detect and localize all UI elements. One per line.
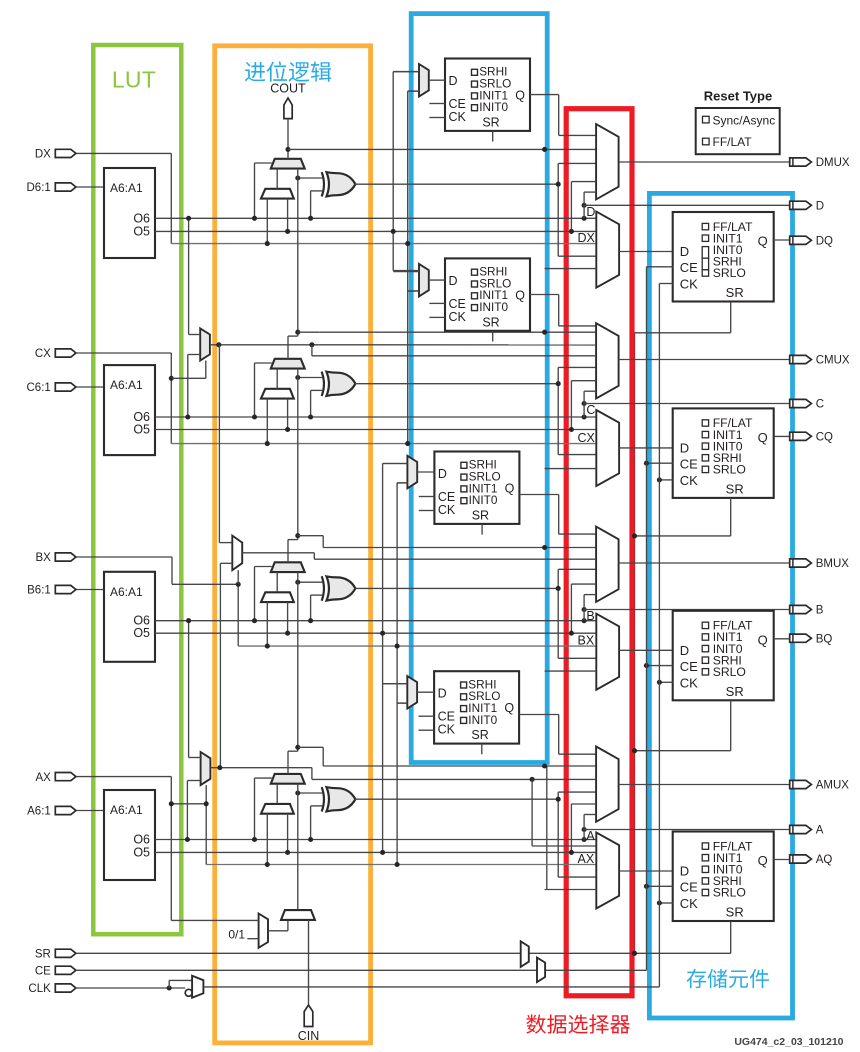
wire F7AMUX output [210,344,596,346]
input pin C6:1 [55,383,76,391]
FF C input mux [419,264,429,297]
wire carry data mux A output [276,784,278,804]
wire F8MUX input from F7BMUX [220,562,232,564]
wire carry branch A to output mux [298,746,323,748]
wire 0/1 mux output to CYINIT [268,930,288,932]
CLK polarity mux [192,976,203,998]
wire carry output C jog [287,336,289,359]
FF B SR stub [481,524,483,535]
wire FF/LAT B CK from rail [659,681,672,683]
flip-flop D5FF block [445,59,530,131]
svg-text:BQ: BQ [816,633,833,645]
carry branch A hidden vertical [546,766,548,890]
hidden CY drop to lower mux B [545,670,597,672]
storage element FF/LAT B [673,611,774,701]
hidden CY drop to lower mux C [545,468,597,470]
svg-text:SRLO: SRLO [713,886,746,900]
output mux DMUX (upper) [596,124,619,199]
output mux BFF input (lower) [596,614,619,690]
wire F7BMUX input from O6 A [187,780,200,782]
wire DX pin to drop [76,152,171,154]
COUT arrow [284,98,292,119]
node C (output line) [582,401,587,406]
wire mux output to FF D D input [619,251,673,253]
svg-text:D: D [449,274,458,288]
svg-text:COUT: COUT [270,82,306,96]
svg-text:SR: SR [726,905,744,920]
wire FF/LAT A SR to rail [730,921,732,953]
svg-text:CK: CK [449,110,467,124]
wire carry branch B to output mux [298,535,323,537]
svg-text:SR: SR [482,116,499,130]
wire XOR C input from O6 [311,389,323,391]
input pin CE [55,966,76,974]
FF B input mux feed wires [383,463,408,465]
svg-text:Q: Q [758,234,768,249]
svg-text:INIT0: INIT0 [479,300,508,314]
FF B CE CK stubs [419,496,435,498]
hidden carry branch to AFF mux (under blue border) [542,763,547,768]
label storage element (Chinese) [687,969,769,988]
svg-text:CE: CE [35,966,51,978]
wire F7AMUX input from O6 D [188,218,190,334]
wire XOR D output [355,183,558,185]
svg-text:CX: CX [35,348,51,360]
input pin B6:1 [55,585,76,593]
XOR gate D [322,172,324,196]
svg-text:AQ: AQ [816,854,833,866]
svg-text:CE: CE [680,260,698,275]
wire carry data mux D input from DX [266,199,268,244]
carry data mux C [261,389,294,399]
wire XOR C input from carry chain [298,377,323,379]
wire MUXCY C select from O6 [255,362,272,364]
SR rail (under red border) [634,333,636,954]
wire carry-in D (from below) [297,169,299,333]
svg-text:SRLO: SRLO [713,665,746,679]
wire DX bus [171,243,596,245]
input pin CX [55,349,76,357]
svg-text:A: A [586,829,595,843]
hidden carry branch to DFF mux (under blue border) [542,147,547,152]
wire F7BMUX output [210,767,312,769]
carry data mux B [261,592,294,602]
storage element FF/LAT A [673,832,774,922]
CE rail [646,267,648,971]
svg-text:Q: Q [758,430,768,445]
svg-text:Q: Q [505,482,515,496]
label carry logic (Chinese) [245,61,331,81]
FF C CE CK stubs [429,302,445,304]
svg-text:B: B [816,605,824,617]
wire O6 bus slice A [155,839,596,841]
wire O6 bus slice C [155,416,596,418]
svg-text:A6:A1: A6:A1 [110,378,143,392]
svg-text:O6: O6 [133,833,150,847]
svg-text:DQ: DQ [816,236,833,248]
input pin A6:1 [55,806,76,814]
flip-flop B5FF block [434,452,519,524]
svg-text:O5: O5 [133,224,150,238]
wire FF D Q to output mux [530,94,559,96]
wire F8MUX select from BX [236,582,241,587]
svg-text:C: C [586,403,595,417]
FF A input mux [407,676,417,709]
FF A SR stub [481,744,483,755]
svg-text:AX: AX [578,852,595,866]
Reset Type legend box [696,108,780,154]
wire XOR A input from O6 [311,805,323,807]
wire XOR D input from carry chain [298,177,323,179]
wire CE bus [76,969,647,971]
XOR D output branch vertical [557,163,559,256]
wire COUT to MUXCY D [287,119,289,159]
svg-text:DMUX: DMUX [816,157,850,169]
input pin SR [55,949,76,957]
label data selector (Chinese) [526,1014,630,1033]
carry branch C hidden vertical [546,349,548,468]
svg-text:DX: DX [35,149,51,161]
LUT B (A6:A1) [104,572,155,662]
FF D input mux [419,64,429,97]
wire MUXCY B select from O6 [255,566,272,568]
wire FF/LAT B Q to BQ pin [774,638,790,640]
wire MUXCY A select from O6 [255,777,272,779]
svg-text:SR: SR [482,315,499,329]
wire O5 bus slice B [155,632,596,634]
wire carry-in C (from below) [297,369,299,536]
wire CMUX output to pin [619,359,790,361]
LUT group box (green) [93,45,181,934]
wire BX pin to drop [76,556,172,558]
output mux BMUX (upper) [596,527,619,602]
wire FF/LAT A Q to AQ pin [774,859,790,861]
output mux group box (red) [566,109,632,996]
FF D SR stub [492,131,494,142]
svg-text:D: D [438,467,447,481]
svg-text:Q: Q [758,632,768,647]
SR gating mux [521,941,529,967]
wire AMUX output to pin [619,784,790,786]
wire F7BMUX select from AX [169,801,174,806]
svg-text:D: D [816,201,824,213]
output pin CQ [790,432,812,440]
wire XOR C output [355,383,558,385]
wire carry data mux C input from CX [266,399,268,444]
wire carry data mux D input from O5 [287,199,289,232]
output mux DFF input (lower) [596,212,619,288]
wire XOR B input from carry chain [298,581,323,583]
wire FF/LAT D CE from rail [647,266,673,268]
svg-text:CE: CE [438,710,455,724]
output pin AMUX [790,780,812,788]
svg-text:BX: BX [35,552,51,564]
hidden carry branch to CFF mux (under blue border) [542,330,547,335]
wire carry-in A (from below) [297,784,299,910]
wire carry data mux A input from AX [266,814,268,865]
svg-text:A6:1: A6:1 [27,806,51,818]
output mux CFF input (lower) [596,410,619,486]
FF C SR stub [492,331,494,342]
legend option Sync/Async [703,116,710,123]
wire FF/LAT C CK from rail [659,479,672,481]
svg-text:O5: O5 [133,423,150,437]
svg-text:CE: CE [680,456,698,471]
svg-text:D: D [680,643,689,658]
svg-text:FF/LAT: FF/LAT [713,135,753,149]
carry mux MUXCY D [271,159,305,169]
FF mux feed vertical (X) lower pair [396,483,398,865]
storage element FF/LAT D [673,212,774,302]
carry data mux A [261,804,294,814]
carry mux MUXCY A [271,774,305,784]
svg-text:INIT0: INIT0 [479,100,508,114]
wire 6-input bus A6:1 pin to LUT [76,810,104,812]
svg-text:D6:1: D6:1 [27,182,51,194]
svg-text:D: D [680,864,689,879]
wire FF B Q to output mux [519,494,558,496]
carry branch D hidden vertical [546,149,548,268]
node D (output line) [582,203,587,208]
wire mux output to FF C D input [619,447,673,449]
wire FF/LAT D Q to DQ pin [774,239,790,241]
FF B input mux [407,456,417,489]
svg-text:D: D [449,74,458,88]
wire O6 bus slice D [155,217,596,219]
svg-text:Sync/Async: Sync/Async [713,113,776,127]
svg-text:CK: CK [438,723,456,737]
svg-text:AX: AX [35,772,51,784]
svg-text:D: D [586,205,595,219]
FF A input mux feed wires [383,683,408,685]
wire O5 riser to AMUX mux [570,804,572,852]
svg-text:CMUX: CMUX [816,355,850,367]
FF A CE CK stubs [419,715,435,717]
wire XOR D input from O6 [311,190,323,192]
wire FF/LAT A CK from rail [659,902,672,904]
wire carry data mux D output [276,169,278,189]
svg-text:Q: Q [504,701,514,715]
svg-text:CIN: CIN [298,1029,320,1043]
svg-text:UG474_c2_03_101210: UG474_c2_03_101210 [734,1036,843,1048]
wire F8MUX output [242,552,314,554]
svg-text:D: D [680,244,689,259]
wire carry data mux B input from BX [266,602,268,646]
wire 6-input bus B6:1 pin to LUT [76,589,104,591]
wire carry output B jog [287,540,289,563]
svg-text:CE: CE [449,297,466,311]
svg-text:B6:1: B6:1 [27,585,51,597]
wire 6-input bus C6:1 pin to LUT [76,386,104,388]
CLK inverter bubble [185,989,192,996]
XOR A output branch vertical [557,792,559,877]
wire O6 bus slice B [155,620,596,622]
output pin BQ [790,634,812,642]
svg-text:CE: CE [449,97,466,111]
svg-text:B: B [586,609,594,623]
svg-text:Reset Type: Reset Type [704,89,772,104]
svg-text:INIT0: INIT0 [469,493,498,507]
svg-text:C: C [816,399,824,411]
wire carry data mux B input from O5 [287,602,289,633]
wire DMUX output to pin [619,161,790,163]
svg-text:CK: CK [680,675,698,690]
mux F7AMUX [200,328,210,360]
svg-text:Q: Q [515,89,525,103]
flip-flop A5FF block [434,671,519,743]
wire CX pin to drop [76,352,171,354]
wire CLK output to rail [203,986,659,988]
svg-text:O5: O5 [133,626,150,640]
svg-text:DX: DX [578,231,596,245]
wire carry branch C to output mux [298,331,320,333]
wire mux output to FF B D input [619,649,673,651]
wire O5 bus slice C [155,429,596,431]
output pin D [790,201,812,209]
svg-text:SR: SR [472,509,489,523]
wire F7BMUX input from O6 B [188,621,190,758]
svg-text:AMUX: AMUX [816,780,850,792]
wire O5 riser to DMUX mux [570,182,572,232]
carry init mux CYINIT [281,910,315,920]
input pin DX [55,149,76,157]
carry data mux D [261,189,294,199]
wire XOR B input from O6 [311,594,323,596]
output mux AFF input (lower) [596,833,619,909]
CLK rail [658,284,660,987]
wire F7AMUX input from O6 C [188,354,200,356]
wire FF/LAT B CE from rail [647,665,673,667]
wire O5 riser to CMUX mux [570,381,572,430]
carry branch B hidden vertical [546,547,548,671]
wire XOR A output [355,798,558,800]
wire CX bus [171,443,596,445]
output pin AQ [790,855,812,863]
wire O5 bus slice A [155,851,596,853]
FF D input mux feed wires [393,71,419,73]
svg-text:CK: CK [680,473,698,488]
output mux CMUX (upper) [596,323,619,398]
wire F7BMUX branch to AFF mux [530,777,535,782]
wire carry branch D to output mux [288,148,596,150]
wire carry data mux A input from O5 [287,814,289,853]
node B (output line) [582,607,587,612]
wire O5 bus slice D [155,230,596,232]
svg-text:O5: O5 [133,845,150,859]
svg-text:INIT0: INIT0 [468,713,497,727]
output pin DQ [790,236,812,244]
svg-text:CE: CE [438,490,455,504]
wire CLK to polarity mux [76,987,185,989]
svg-text:C6:1: C6:1 [27,382,51,394]
svg-text:BMUX: BMUX [816,558,850,570]
svg-text:SRLO: SRLO [713,266,746,280]
svg-text:A6:A1: A6:A1 [110,585,143,599]
wire FF A Q to output mux [519,714,559,716]
hidden carry branch to BFF mux (under blue border) [542,545,547,550]
wire MUXCY D select from O6 [255,162,272,164]
carry-logic group box (orange) [215,46,371,1043]
LUT D (A6:A1) [104,168,155,258]
storage element group box (blue) [649,193,792,1018]
node A (output line) [582,827,587,832]
svg-text:CK: CK [438,503,456,517]
svg-text:Q: Q [515,288,525,302]
svg-text:A6:A1: A6:A1 [110,181,143,195]
wire O5 riser to BMUX mux [570,584,572,633]
LUT A (A6:A1) [104,790,155,880]
wire FF/LAT C SR to rail [730,498,732,536]
FF D CE CK stubs [429,103,445,105]
FF mux feed vertical (X) upper pair [407,91,409,444]
output pin B [790,605,812,613]
wire XOR A input from carry chain [298,792,323,794]
wire carry-in B (from below) [297,572,299,747]
XOR gate C [322,372,324,396]
svg-text:CX: CX [578,431,596,445]
wire FF/LAT A CE from rail [647,885,673,887]
input pin AX [55,773,76,781]
svg-text:O6: O6 [133,211,150,225]
XOR gate A [322,787,324,811]
wire 6-input bus D6:1 pin to LUT [76,186,104,188]
wire AX to 0/1 mux [171,919,258,921]
input pin D6:1 [55,183,76,191]
XOR gate B [322,576,324,600]
output mux AMUX (upper) [596,747,619,822]
svg-text:CK: CK [680,896,698,911]
output pin DMUX [790,158,812,166]
FF C input mux feed wires [393,271,419,273]
svg-text:SR: SR [35,949,51,961]
wire 0/1 constant stub [247,938,258,940]
mux 0/1 (carry init select) [259,914,268,948]
svg-text:SR: SR [726,285,744,300]
wire FF/LAT C Q to CQ pin [774,435,790,437]
svg-text:0/1: 0/1 [228,928,245,942]
svg-text:A6:A1: A6:A1 [110,803,143,817]
wire F7AMUX select from CX [169,376,174,381]
input pin BX [55,553,76,561]
wire F7AMUX output to F8MUX [218,345,220,543]
wire AX bus [206,864,596,866]
hidden CY drop to lower mux A [545,889,597,891]
mid flip-flop group box (blue) [411,14,547,763]
wire BMUX output to pin [619,562,790,564]
CE gating mux [537,958,545,982]
output pin BMUX [790,559,812,567]
output pin A [790,825,812,833]
svg-text:CE: CE [680,659,698,674]
wire carry output A jog [287,751,289,774]
wire carry data mux C input from O5 [287,399,289,430]
svg-text:CE: CE [680,880,698,895]
FF mux feed vertical (O5) lower pair [382,464,384,853]
wire carry data mux C output [276,369,278,389]
output pin CMUX [790,355,812,363]
wire BX bus [238,645,596,647]
svg-text:SR: SR [726,684,744,699]
svg-text:CK: CK [680,277,698,292]
svg-text:SRLO: SRLO [713,463,746,477]
svg-text:CLK: CLK [28,983,51,995]
wire AX pin to drop [76,776,171,778]
FF mux feed vertical (O5) upper pair [392,72,394,271]
wire FF/LAT C CE from rail [647,462,673,464]
wire FF/LAT B SR to rail [730,700,732,750]
wire mux output to FF A D input [619,870,673,872]
CIN arrow [304,1005,313,1027]
